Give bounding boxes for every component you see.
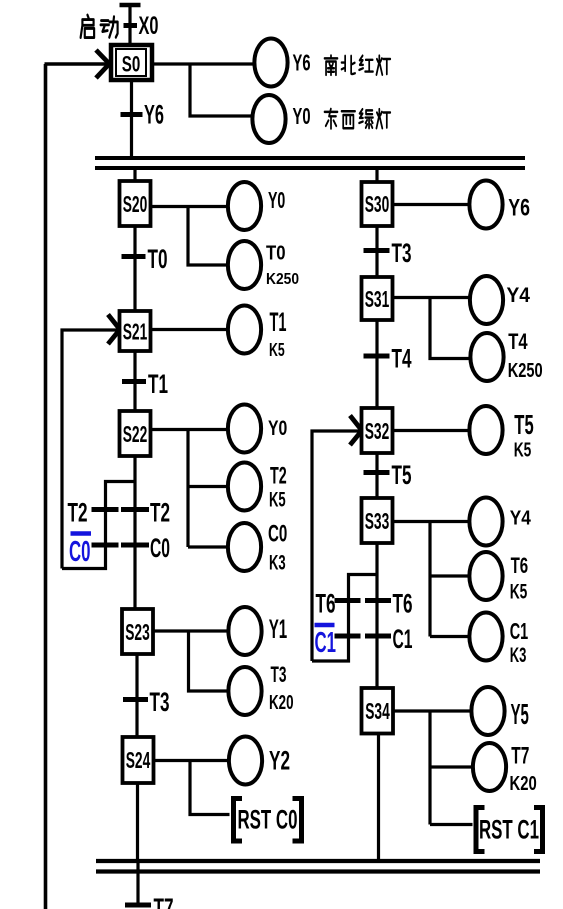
wire left return loop <box>44 64 48 909</box>
wire into S0 <box>45 62 110 66</box>
label RST C0 <box>238 805 298 835</box>
label T1 transition <box>148 369 168 399</box>
svg-text:K5: K5 <box>510 580 528 604</box>
svg-text:T0: T0 <box>266 243 286 265</box>
transition T3 right <box>364 248 390 253</box>
step S31 <box>362 277 393 320</box>
svg-text:T2: T2 <box>68 498 88 528</box>
svg-text:K250: K250 <box>508 359 543 382</box>
wire S20 outputs <box>151 207 228 266</box>
svg-text:K20: K20 <box>510 772 537 795</box>
label S0 <box>122 52 141 77</box>
wire stem to S30 <box>375 166 378 182</box>
label S23 <box>125 619 150 645</box>
label T7 K20 <box>510 743 537 796</box>
coil Y1 <box>228 607 261 655</box>
wire S20-S21 stem <box>133 226 136 311</box>
wire top stem <box>128 5 131 44</box>
op RST C1 brackets <box>476 808 543 852</box>
coil T7 K20 <box>473 743 506 791</box>
label T5 transition <box>392 460 412 490</box>
label C1-not blue <box>315 627 337 659</box>
wire S31-S32 stem <box>375 320 378 408</box>
svg-text:S0: S0 <box>122 52 141 77</box>
wire S30 output <box>393 203 469 206</box>
svg-text:X0: X0 <box>139 12 159 40</box>
wire OR branch right path <box>312 575 377 662</box>
wire loopback into S21 <box>62 330 120 569</box>
svg-text:C0: C0 <box>69 536 91 568</box>
contact C0 main <box>121 543 149 548</box>
label T1 K5 <box>269 307 287 360</box>
label S24 <box>126 747 151 773</box>
svg-text:Y6: Y6 <box>508 195 530 222</box>
contact C1-not branch <box>335 634 361 639</box>
step S24 <box>123 737 154 783</box>
label T5 K5 <box>514 409 534 462</box>
svg-text:T4: T4 <box>508 329 528 354</box>
label T3 <box>392 238 412 268</box>
step S32 <box>362 408 393 453</box>
svg-text:Y0: Y0 <box>268 416 287 440</box>
wire loopback into S32 <box>312 431 362 661</box>
label Y6 南北红灯 <box>293 50 311 76</box>
coil Y0 (S22) <box>228 405 261 453</box>
coil Y6 (S30) <box>469 181 502 229</box>
svg-text:K5: K5 <box>269 340 285 360</box>
svg-text:Y0: Y0 <box>293 103 311 129</box>
transition T0 <box>122 254 146 259</box>
label T3 K20 <box>269 662 294 714</box>
svg-text:S24: S24 <box>126 747 151 773</box>
svg-text:Y6: Y6 <box>144 100 164 130</box>
svg-text:K20: K20 <box>269 692 294 714</box>
svg-text:S22: S22 <box>123 421 148 447</box>
wire S21-S22 stem <box>133 351 136 411</box>
label S21 <box>123 319 148 345</box>
wire S23 outputs <box>153 631 229 691</box>
label T2 K5 <box>269 463 287 512</box>
svg-text:T5: T5 <box>392 460 412 490</box>
label T2 main <box>150 498 170 528</box>
step S23 <box>122 609 153 654</box>
wire S0 down stem <box>130 82 133 160</box>
label T4 K250 <box>508 329 543 382</box>
arrow into S32 <box>350 416 364 446</box>
svg-text:S31: S31 <box>365 286 390 312</box>
svg-text:T1: T1 <box>270 307 287 337</box>
coil T6 K5 <box>469 552 502 600</box>
svg-text:K5: K5 <box>269 488 286 512</box>
coil Y0 (S20) <box>228 182 261 230</box>
label T6 K5 <box>510 553 529 604</box>
svg-text:T7: T7 <box>511 743 529 770</box>
svg-text:T3: T3 <box>150 687 170 717</box>
step S0 initial step double box <box>111 45 152 80</box>
svg-text:T1: T1 <box>148 369 168 399</box>
svg-text:T2: T2 <box>270 463 287 490</box>
transition T5 <box>364 470 390 475</box>
coil Y4 (S33) <box>469 498 502 546</box>
svg-text:T6: T6 <box>511 553 529 578</box>
label T3 transition <box>150 687 170 717</box>
svg-text:S20: S20 <box>123 191 148 217</box>
transition T4 <box>364 354 390 359</box>
wire S32-S33 stem <box>375 453 378 498</box>
coil T5 K5 <box>469 406 502 454</box>
svg-text:K5: K5 <box>514 440 532 462</box>
label Y0 <box>268 416 287 440</box>
svg-text:RST C1: RST C1 <box>479 815 539 845</box>
wire S24 outputs <box>154 761 230 815</box>
svg-text:T3: T3 <box>271 662 287 687</box>
label T6 main <box>393 589 413 619</box>
start rail <box>120 3 141 8</box>
label S32 <box>365 418 390 444</box>
label C1 main <box>393 624 413 654</box>
svg-text:Y4: Y4 <box>510 507 532 530</box>
label S30 <box>365 191 390 217</box>
label T0 transition <box>148 244 168 274</box>
svg-text:Y5: Y5 <box>511 699 529 731</box>
svg-text:T5: T5 <box>514 409 533 440</box>
wire S22 outputs <box>151 430 228 548</box>
svg-text:S30: S30 <box>365 191 390 217</box>
label T2 branch <box>68 498 88 528</box>
label C0-not overline <box>71 531 92 536</box>
svg-text:Y0: Y0 <box>268 187 285 213</box>
wire S23-S24 stem <box>135 654 138 737</box>
parallel convergence double rail <box>96 861 540 872</box>
wire S33-S34 main stem <box>375 543 378 688</box>
wire S30-S31 stem <box>375 226 378 277</box>
transition T1 <box>122 379 146 384</box>
label T4 transition <box>392 344 412 374</box>
label T7 transition <box>154 893 174 909</box>
label Y6 <box>508 195 530 222</box>
coil T4 K250 <box>470 333 503 381</box>
svg-text:T6: T6 <box>316 589 336 619</box>
arrow into S21 <box>108 315 122 345</box>
step S34 <box>362 688 394 734</box>
svg-text:C0: C0 <box>268 521 287 548</box>
svg-text:K3: K3 <box>269 551 286 575</box>
coil C0 K3 <box>228 523 261 571</box>
svg-text:C1: C1 <box>315 627 337 659</box>
label C0 main <box>150 533 170 563</box>
svg-text:S34: S34 <box>365 698 390 724</box>
svg-text:T2: T2 <box>150 498 170 528</box>
svg-text:Y2: Y2 <box>269 746 290 776</box>
op RST C0 brackets <box>234 799 302 842</box>
label X0 <box>139 12 159 40</box>
wire S32 output <box>393 429 470 432</box>
label C0 K3 <box>268 521 287 575</box>
wire OR branch left path <box>62 482 135 569</box>
wire S22-S23 main stem <box>133 456 136 609</box>
label Y0 <box>268 187 285 213</box>
label Y1 <box>269 614 288 644</box>
coil Y5 <box>471 687 504 735</box>
label T6 branch <box>316 589 336 619</box>
step S30 <box>362 182 393 226</box>
contact C1 main <box>365 634 391 639</box>
label Y5 <box>511 699 529 731</box>
transition Y6 <box>121 112 143 117</box>
arrow into S0 <box>96 50 112 78</box>
svg-text:RST C0: RST C0 <box>238 805 298 835</box>
svg-text:S23: S23 <box>125 619 150 645</box>
label C1 K3 <box>510 618 529 667</box>
coil T0 K250 <box>228 241 261 289</box>
svg-text:K250: K250 <box>266 271 299 288</box>
coil T2 K5 <box>228 463 261 511</box>
wire S33 outputs <box>393 522 470 637</box>
step S20 <box>120 181 151 226</box>
coil T3 K20 <box>228 667 261 715</box>
svg-text:Y1: Y1 <box>269 614 288 644</box>
step S33 <box>362 498 393 543</box>
svg-text:T6: T6 <box>393 589 413 619</box>
label S31 <box>365 286 390 312</box>
svg-text:T7: T7 <box>154 893 174 909</box>
label RST C1 <box>479 815 539 845</box>
step S22 <box>120 411 151 456</box>
wire S0 to output coils <box>153 64 254 116</box>
label C1-not overline <box>315 623 335 628</box>
contact C0-not branch <box>92 543 119 548</box>
wire S31 outputs <box>393 298 470 359</box>
contact T2 main <box>121 507 149 512</box>
svg-text:S32: S32 <box>365 418 390 444</box>
wire below convergence <box>136 861 139 907</box>
label S22 <box>123 421 148 447</box>
wire S34 to convergence <box>377 734 380 862</box>
label 启动 <box>81 15 118 38</box>
label Y4 <box>510 507 532 530</box>
wire S21 output <box>151 328 228 331</box>
parallel divergence double rail <box>95 158 525 168</box>
transition T3 left <box>123 697 148 702</box>
svg-text:S33: S33 <box>365 508 390 534</box>
contact X0 <box>124 23 138 28</box>
svg-text:T3: T3 <box>392 238 412 268</box>
wire stem to S20 <box>133 166 136 182</box>
coil T1 K5 <box>228 306 261 354</box>
label Y6 transition <box>144 100 164 130</box>
coil C1 K3 <box>469 613 502 661</box>
transition T7 <box>125 903 151 908</box>
svg-text:C0: C0 <box>150 533 170 563</box>
svg-text:S21: S21 <box>123 319 148 345</box>
contact T6 branch <box>335 598 361 603</box>
wire S24 to convergence <box>136 783 139 861</box>
label S34 <box>365 698 390 724</box>
svg-text:K3: K3 <box>510 643 527 667</box>
svg-text:T4: T4 <box>392 344 412 374</box>
label Y0 东西绿灯 <box>293 103 311 129</box>
coil Y4 (S31) <box>470 276 503 324</box>
label C0-not blue <box>69 536 91 568</box>
svg-text:C1: C1 <box>510 618 529 644</box>
coil Y2 <box>229 737 262 785</box>
coil Y6 <box>254 39 287 87</box>
label S20 <box>123 191 148 217</box>
svg-text:T0: T0 <box>148 244 168 274</box>
svg-text:Y6: Y6 <box>293 50 311 76</box>
contact T2 branch <box>92 507 119 512</box>
wire S34 outputs <box>393 711 473 825</box>
label S33 <box>365 508 390 534</box>
coil Y0 <box>252 95 285 143</box>
svg-text:C1: C1 <box>393 624 413 654</box>
step S21 <box>120 311 151 351</box>
label T0 K250 <box>266 243 299 289</box>
label Y4 <box>507 283 531 307</box>
contact T6 main <box>365 598 391 603</box>
label Y2 <box>269 746 290 776</box>
svg-text:Y4: Y4 <box>507 283 531 307</box>
